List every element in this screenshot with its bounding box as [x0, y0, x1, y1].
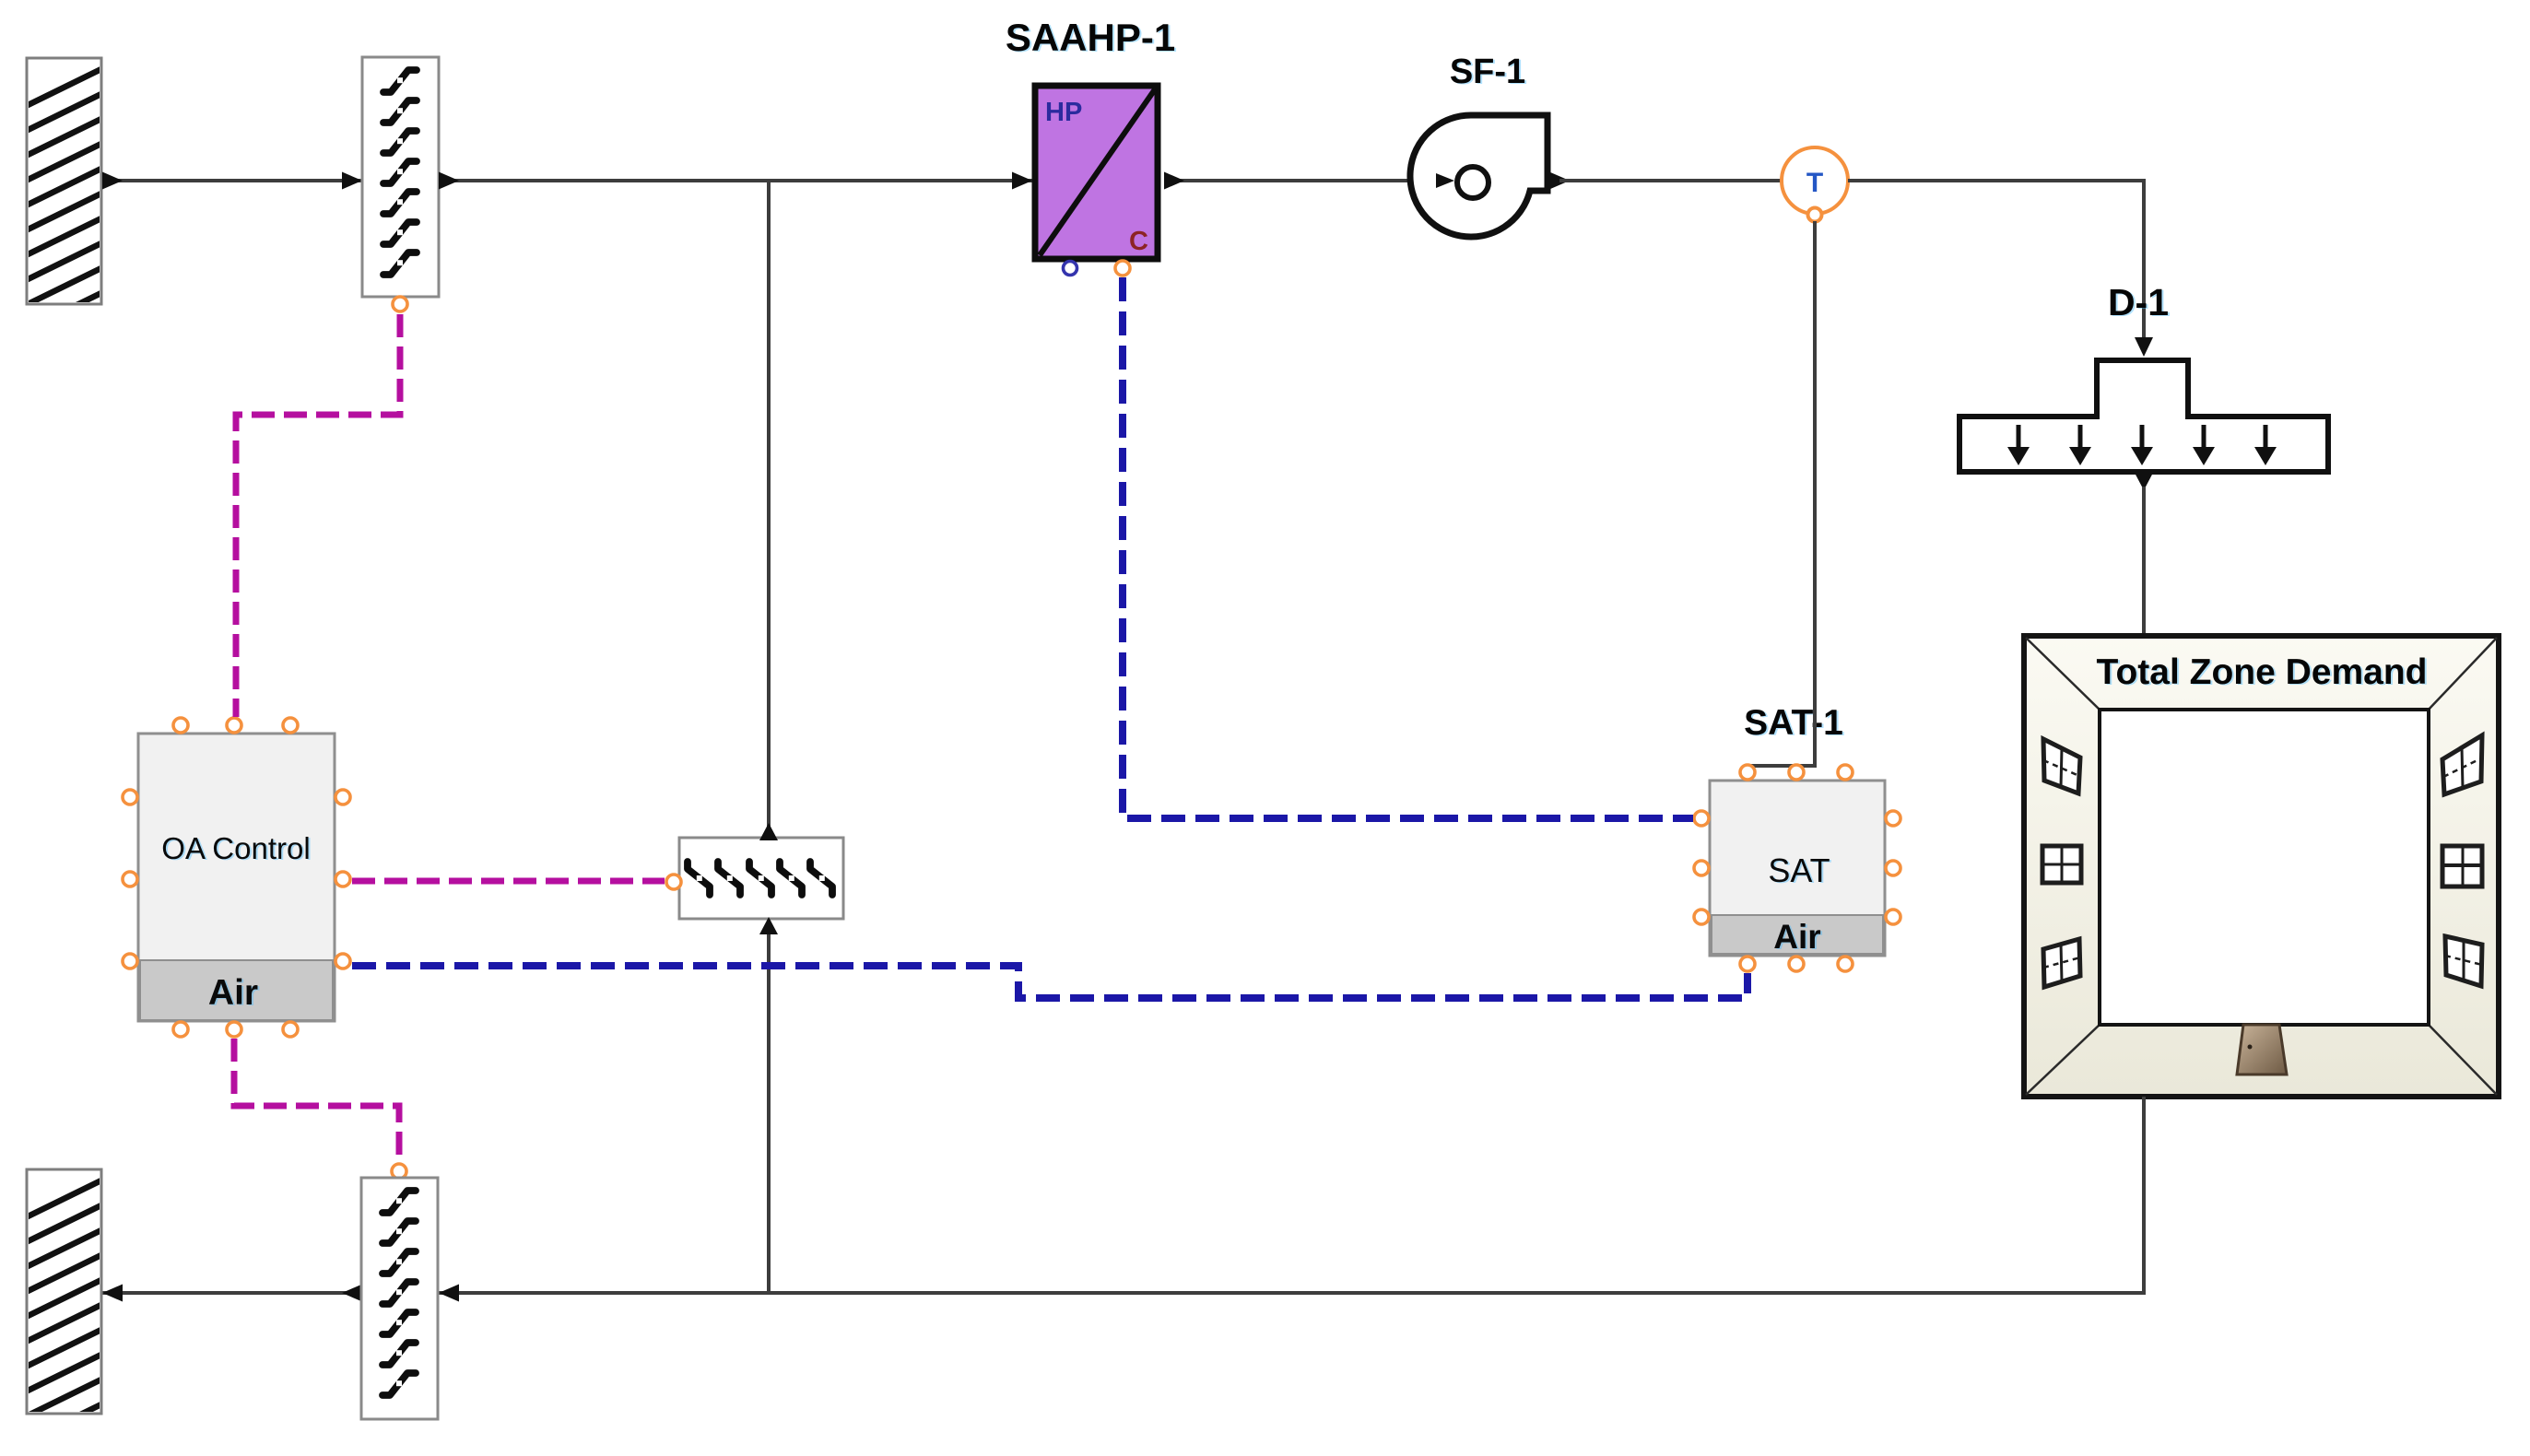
zone window right 1 [2442, 735, 2482, 794]
OA damper [362, 57, 439, 297]
diffuser D-1 [1959, 360, 2328, 472]
blue control wire SAAHP-1 to SAT [1123, 277, 1693, 818]
T sensor [1782, 147, 1848, 214]
outside air intake hatched box [17, 58, 112, 335]
recirculation damper [679, 838, 843, 919]
zone window left 3 [2043, 939, 2080, 987]
SAAHP-1 orange port [1115, 261, 1130, 276]
return wire arrow at damper outlet [342, 1285, 362, 1302]
heat pump SAAHP-1 [1035, 86, 1158, 259]
svg-text:Total Zone Demand: Total Zone Demand [2097, 652, 2428, 692]
OA Control ports [123, 718, 350, 1037]
svg-text:SAT-1: SAT-1 [1744, 703, 1843, 743]
zone door handle [2248, 1045, 2253, 1050]
svg-text:HP: HP [1045, 98, 1082, 127]
SAT ports [1694, 765, 1900, 971]
wire zone to return duct [102, 1097, 2144, 1293]
zone window right 3 [2445, 936, 2482, 986]
zone window left 1 [2043, 739, 2080, 793]
recirculation damper left port [666, 875, 681, 889]
magenta control wire OA Control to exhaust damper [234, 1039, 399, 1162]
arrow into diffuser [2135, 337, 2153, 357]
OA damper bottom port [393, 297, 407, 311]
arrow above recirculation damper [759, 823, 778, 840]
supply fan SF-1 [1410, 115, 1570, 237]
svg-text:Air: Air [208, 973, 258, 1013]
svg-text:OA Control: OA Control [161, 831, 310, 865]
exhaust damper [361, 1178, 438, 1419]
supply wire SAAHP-1 to fan [1164, 172, 1424, 190]
wire branch down to recirculation damper [767, 181, 771, 838]
return wire arrow at damper inlet [439, 1285, 459, 1302]
svg-text:SF-1: SF-1 [1450, 53, 1525, 91]
zone Total Zone Demand [2024, 636, 2499, 1097]
SAT block [1710, 781, 1885, 956]
svg-text:T: T [1806, 168, 1823, 198]
zone door [2237, 1025, 2287, 1074]
exhaust hatched box [17, 1169, 112, 1446]
svg-text:C: C [1129, 227, 1148, 256]
magenta control wire OA damper to OA Control [236, 314, 400, 717]
wire diffuser to zone [2142, 487, 2146, 638]
blue control wire OA Control to SAT [352, 966, 1747, 998]
supply wire from intake to OA damper [102, 172, 362, 190]
magenta control wire OA Control to recirculation damper [352, 878, 665, 885]
arrow out of diffuser [2135, 473, 2153, 490]
svg-text:SAAHP-1: SAAHP-1 [1006, 16, 1175, 59]
return wire arrow at exhaust box [102, 1285, 123, 1302]
svg-text:D-1: D-1 [2108, 281, 2169, 323]
wire T sensor to SAT block [1747, 221, 1815, 776]
svg-text:Air: Air [1773, 918, 1820, 956]
OA Control block [138, 734, 335, 1021]
supply wire from OA damper to SAAHP-1 [439, 172, 1032, 190]
zone window right 2 [2442, 846, 2482, 887]
exhaust damper top port [392, 1164, 406, 1179]
supply wire T sensor to duct corner [1848, 181, 2144, 345]
T sensor bottom port [1808, 208, 1822, 222]
SAAHP-1 blue port [1064, 262, 1077, 276]
arrow below recirculation damper [759, 917, 778, 934]
recirculation wire return to supply [767, 919, 771, 1293]
svg-text:SAT: SAT [1768, 851, 1830, 889]
supply wire fan to T sensor [1559, 179, 1782, 182]
zone window left 2 [2042, 846, 2081, 883]
